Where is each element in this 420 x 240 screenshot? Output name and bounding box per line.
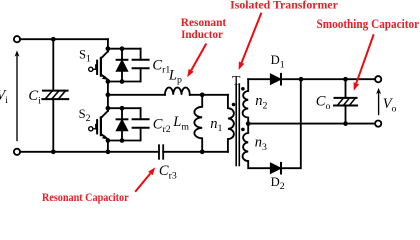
annotation arrow to Lp <box>187 44 206 78</box>
svg-text:Lm: Lm <box>172 114 189 132</box>
svg-text:S2: S2 <box>79 107 91 124</box>
wire S1 cell bottom <box>108 81 141 83</box>
capacitor Ci <box>42 39 68 152</box>
output terminal top <box>375 76 381 82</box>
inductor Lp <box>165 88 190 95</box>
wire D1 to output <box>281 78 375 80</box>
transformer secondary n3 <box>243 124 271 169</box>
wire rail below S2 <box>107 139 109 151</box>
wire S2 cell bottom <box>108 140 141 142</box>
input terminal bottom <box>14 149 20 155</box>
svg-text:Vi: Vi <box>0 88 8 106</box>
svg-text:Smoothing Capacitor: Smoothing Capacitor <box>317 17 420 31</box>
wire S1 cell top <box>108 48 141 50</box>
transformer core <box>236 84 239 166</box>
node n1 polarity dot <box>232 103 236 107</box>
output terminal bottom <box>375 121 381 127</box>
svg-text:Cr3: Cr3 <box>159 163 177 181</box>
svg-text:n3: n3 <box>255 135 267 153</box>
wire n2 to D1 <box>248 78 270 80</box>
annotation arrow to Co <box>354 34 374 91</box>
svg-text:Co: Co <box>316 94 331 112</box>
node n3 polarity dot <box>241 128 245 132</box>
svg-text:D1: D1 <box>271 53 285 70</box>
wire D2 to rectifier bus <box>281 79 301 168</box>
node center tap <box>246 121 251 126</box>
node S1 top <box>106 46 111 51</box>
node Ci bottom <box>51 149 56 154</box>
node Co bottom <box>343 121 348 126</box>
node S2 bottom <box>106 138 111 143</box>
svg-text:Cr1: Cr1 <box>152 57 170 75</box>
wire S2 cell top <box>108 107 141 109</box>
node Co top <box>343 77 348 82</box>
svg-text:Vo: Vo <box>383 96 397 114</box>
wire Lp to n1 <box>190 94 228 96</box>
diode D2 <box>270 163 281 174</box>
node half-bridge midpoint <box>106 92 111 97</box>
node S2 diode bottom <box>120 138 125 143</box>
node S2 diode top <box>120 106 125 111</box>
transistor S1 <box>89 51 108 80</box>
svg-text:T: T <box>232 73 241 88</box>
Vo arrow <box>376 88 381 115</box>
svg-text:Inductor: Inductor <box>181 29 223 41</box>
node tank bottom <box>200 149 205 154</box>
wire rail between S1 emitter and mid node <box>107 80 109 111</box>
svg-text:Lp: Lp <box>168 67 182 85</box>
diode S2 antiparallel <box>116 108 128 140</box>
svg-text:Resonant Capacitor: Resonant Capacitor <box>42 191 129 204</box>
transistor S2 <box>89 111 108 139</box>
node S1 bottom <box>106 79 111 84</box>
Vi arrow <box>15 50 20 140</box>
annotation arrow to T <box>239 13 262 70</box>
wire center tap to output <box>248 123 375 125</box>
input terminal top <box>14 36 20 42</box>
svg-text:S1: S1 <box>79 47 91 64</box>
annotation arrow to Cr3 <box>135 167 155 192</box>
node Ci top <box>51 37 56 42</box>
svg-text:D2: D2 <box>271 175 285 192</box>
svg-text:Cr2: Cr2 <box>153 117 171 135</box>
capacitor Cr2 <box>133 108 149 140</box>
node tank top <box>200 92 205 97</box>
wire top bus left <box>20 38 108 40</box>
wire switch rail upper <box>107 39 109 51</box>
transformer primary n1 <box>228 95 234 152</box>
inductor Lm <box>194 95 202 152</box>
node n2 polarity dot <box>241 87 245 91</box>
wire bottom bus right of Cr3 <box>163 151 228 153</box>
svg-text:n2: n2 <box>255 93 267 111</box>
svg-text:Isolated Transformer: Isolated Transformer <box>230 0 338 12</box>
capacitor Cr1 <box>133 49 149 82</box>
diode S1 antiparallel <box>116 49 128 82</box>
transformer secondary n2 <box>243 79 249 123</box>
diode D1 <box>270 74 281 85</box>
svg-text:Ci: Ci <box>28 88 41 106</box>
wire bottom bus left <box>20 151 159 153</box>
svg-text:n1: n1 <box>210 116 222 134</box>
wire midpoint to Lp <box>108 94 165 96</box>
node rail bottom bus <box>106 149 111 154</box>
node S1 diode bottom <box>120 79 125 84</box>
capacitor Co <box>334 79 357 123</box>
node S1 diode top <box>120 46 125 51</box>
node S2 top <box>106 106 111 111</box>
capacitor Cr3 <box>159 145 163 159</box>
svg-text:Resonant: Resonant <box>181 17 227 29</box>
node D1 output <box>299 77 304 82</box>
